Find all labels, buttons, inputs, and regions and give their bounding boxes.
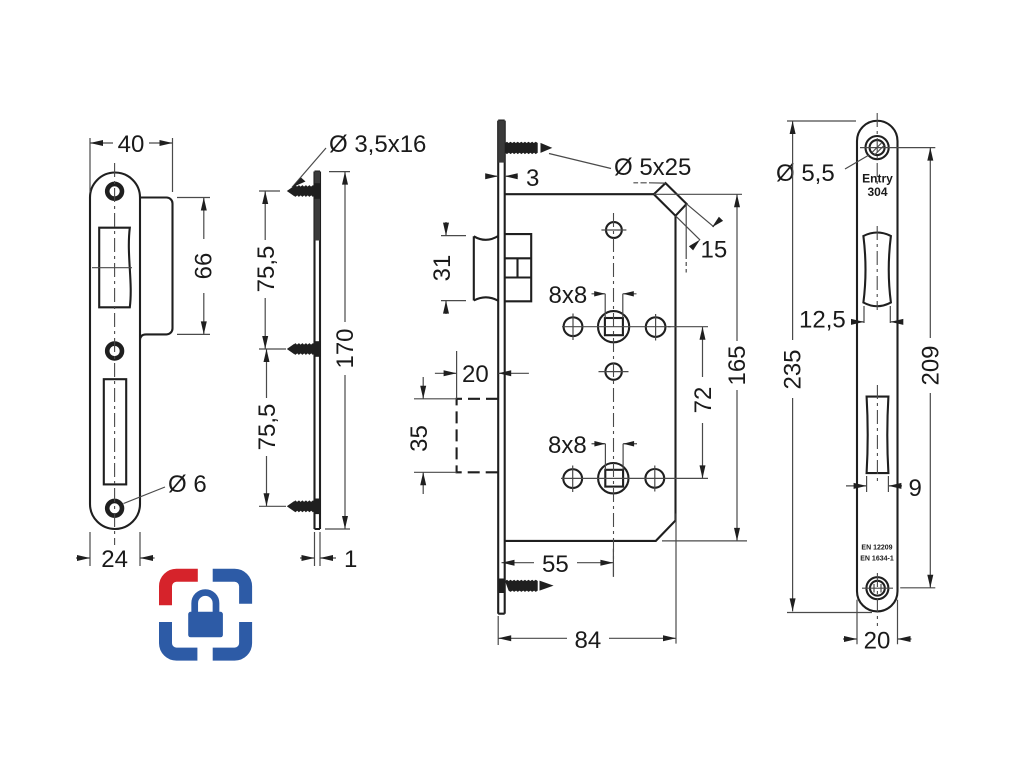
svg-text:EN 1634-1: EN 1634-1 (860, 556, 894, 563)
svg-text:75,5: 75,5 (253, 246, 280, 293)
svg-text:304: 304 (867, 185, 887, 199)
svg-text:75,5: 75,5 (254, 404, 281, 451)
svg-text:Ø 6: Ø 6 (168, 471, 207, 498)
svg-text:Ø 3,5x16: Ø 3,5x16 (329, 131, 426, 158)
svg-text:Entry: Entry (862, 172, 893, 186)
svg-text:235: 235 (780, 349, 807, 389)
svg-text:24: 24 (101, 546, 128, 573)
svg-text:15: 15 (701, 237, 728, 264)
svg-text:55: 55 (542, 551, 569, 578)
svg-text:3: 3 (526, 165, 539, 192)
svg-text:EN 12209: EN 12209 (861, 545, 892, 552)
svg-text:9: 9 (909, 475, 922, 502)
svg-text:40: 40 (118, 131, 145, 158)
svg-text:35: 35 (406, 425, 433, 452)
svg-text:20: 20 (864, 628, 891, 655)
svg-text:Ø 5,5: Ø 5,5 (776, 160, 835, 187)
svg-text:84: 84 (575, 627, 602, 654)
svg-text:66: 66 (191, 253, 218, 280)
svg-text:Ø 5x25: Ø 5x25 (614, 154, 691, 181)
svg-text:8x8: 8x8 (548, 432, 587, 459)
svg-text:72: 72 (690, 387, 717, 414)
svg-text:1: 1 (344, 546, 357, 573)
svg-text:165: 165 (724, 345, 751, 385)
svg-text:31: 31 (429, 255, 456, 282)
svg-text:8x8: 8x8 (549, 282, 588, 309)
svg-text:12,5: 12,5 (799, 307, 846, 334)
svg-text:20: 20 (462, 361, 489, 388)
svg-text:209: 209 (918, 345, 945, 385)
svg-text:170: 170 (332, 328, 359, 368)
